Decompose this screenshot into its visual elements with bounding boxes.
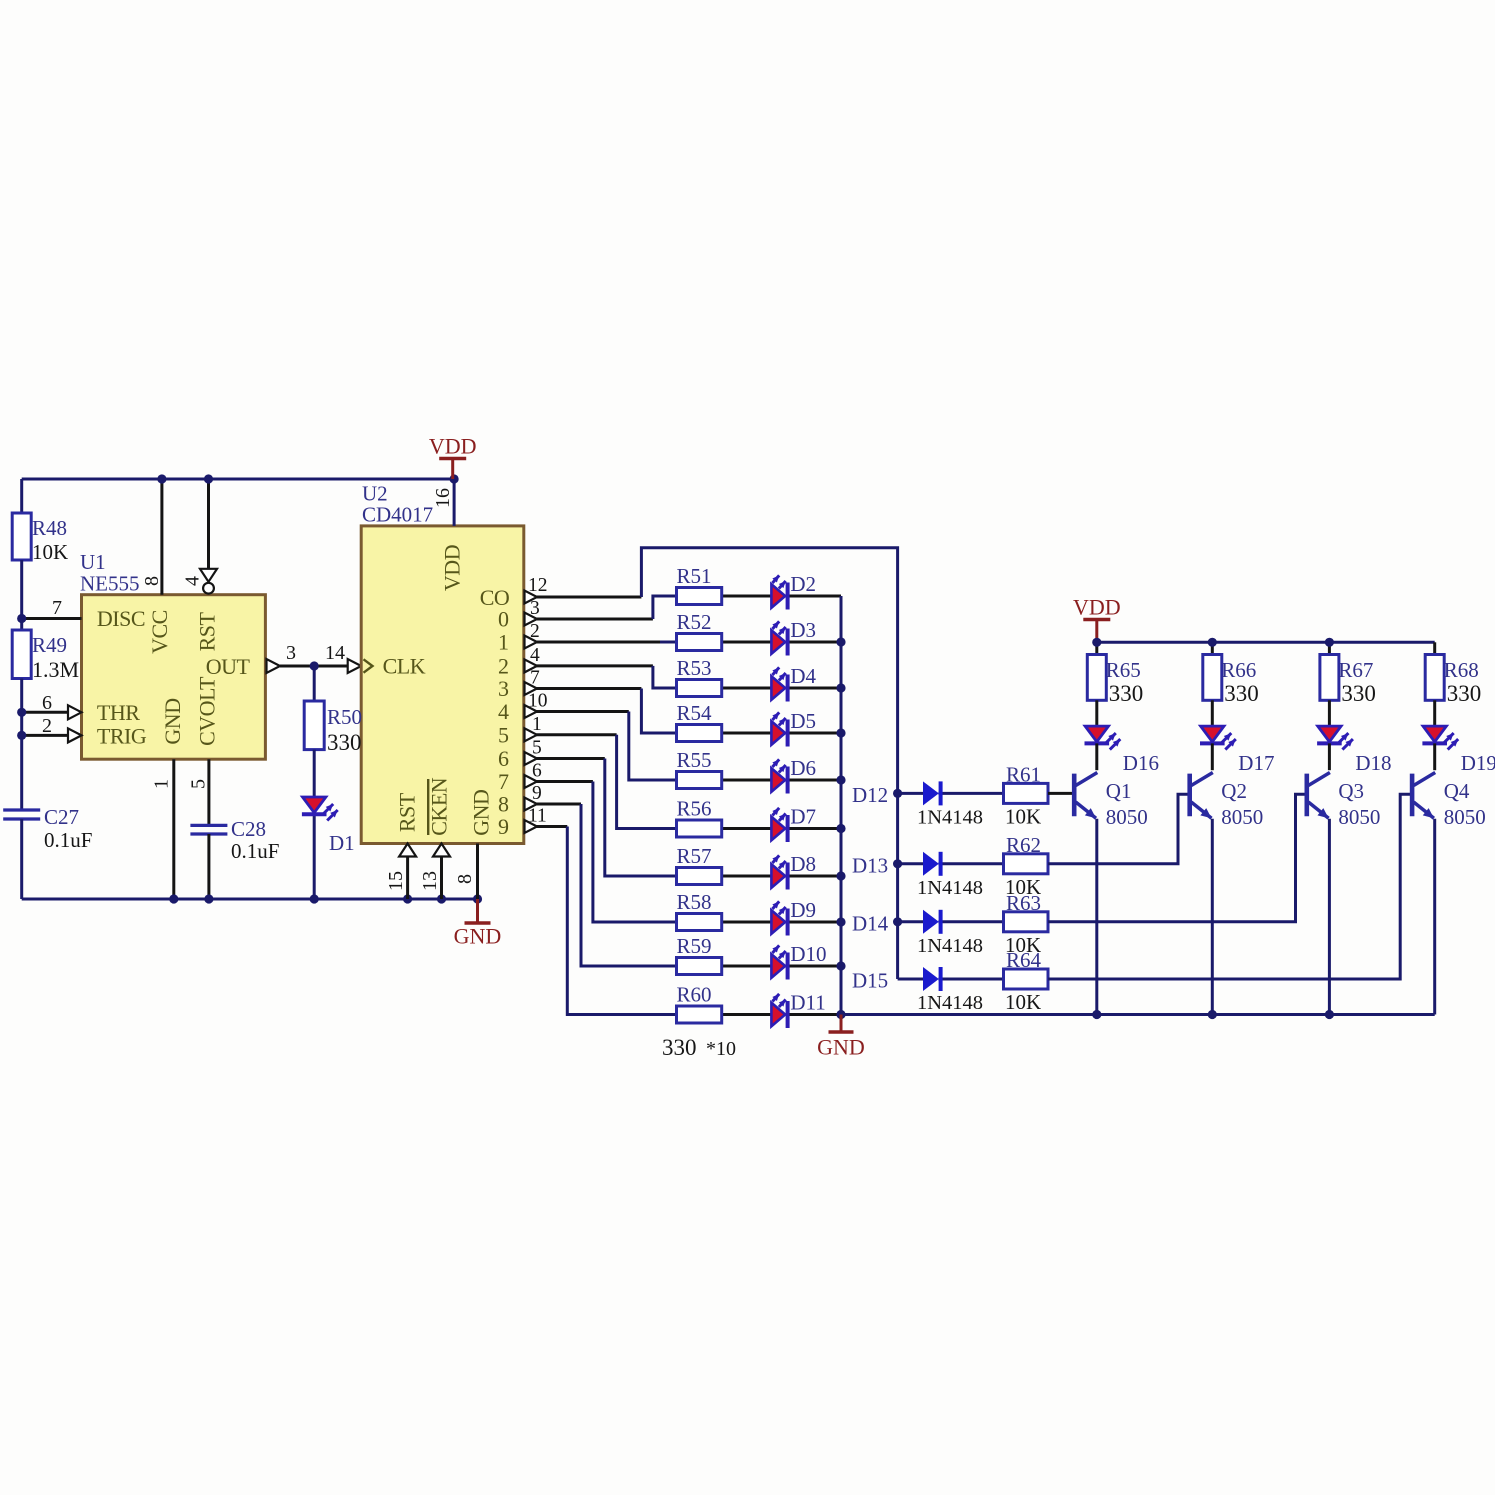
svg-text:D4: D4 — [790, 664, 816, 688]
svg-text:R52: R52 — [677, 610, 712, 634]
svg-text:R62: R62 — [1006, 833, 1041, 857]
svg-text:R64: R64 — [1006, 948, 1042, 972]
svg-text:13: 13 — [419, 871, 441, 891]
svg-text:R60: R60 — [677, 983, 712, 1007]
svg-text:10K: 10K — [32, 540, 68, 564]
svg-text:15: 15 — [385, 871, 407, 891]
svg-text:330: 330 — [1341, 681, 1376, 706]
svg-text:Q2: Q2 — [1221, 779, 1247, 803]
svg-text:8: 8 — [141, 576, 163, 586]
svg-text:7: 7 — [530, 668, 540, 689]
svg-text:VDD: VDD — [429, 434, 477, 459]
svg-text:THR: THR — [97, 700, 140, 725]
svg-text:R68: R68 — [1444, 658, 1479, 682]
svg-text:Q4: Q4 — [1444, 779, 1470, 803]
svg-text:VDD: VDD — [440, 545, 465, 591]
svg-text:GND: GND — [454, 924, 502, 949]
svg-text:1N4148: 1N4148 — [917, 806, 983, 828]
svg-text:8: 8 — [454, 874, 476, 884]
svg-text:NE555: NE555 — [80, 572, 140, 596]
svg-text:D11: D11 — [790, 991, 825, 1015]
svg-text:D9: D9 — [790, 898, 816, 922]
svg-text:RST: RST — [395, 792, 420, 832]
svg-text:TRIG: TRIG — [97, 724, 147, 749]
svg-text:CVOLT: CVOLT — [195, 676, 220, 746]
svg-text:330: 330 — [1109, 681, 1144, 706]
svg-text:DISC: DISC — [97, 606, 145, 631]
svg-text:CD4017: CD4017 — [362, 503, 433, 527]
svg-text:8050: 8050 — [1444, 805, 1486, 829]
svg-text:7: 7 — [52, 597, 62, 619]
svg-text:6: 6 — [532, 761, 542, 782]
svg-text:5: 5 — [532, 738, 542, 759]
svg-text:9: 9 — [532, 783, 542, 804]
svg-text:12: 12 — [528, 575, 548, 596]
svg-text:GND: GND — [160, 698, 185, 744]
svg-text:R50: R50 — [327, 705, 362, 729]
svg-text:R63: R63 — [1006, 891, 1041, 915]
svg-text:1: 1 — [532, 714, 542, 735]
svg-text:14: 14 — [325, 642, 345, 664]
svg-text:R67: R67 — [1338, 658, 1373, 682]
svg-text:C28: C28 — [231, 817, 266, 841]
svg-text:330: 330 — [662, 1035, 697, 1060]
svg-text:10: 10 — [528, 691, 548, 712]
svg-text:R55: R55 — [677, 748, 712, 772]
svg-text:4: 4 — [182, 576, 204, 586]
svg-text:D2: D2 — [790, 572, 816, 596]
svg-text:2: 2 — [498, 653, 509, 678]
svg-text:11: 11 — [528, 806, 547, 827]
svg-text:1: 1 — [151, 779, 173, 789]
svg-text:1: 1 — [498, 630, 509, 655]
svg-text:R49: R49 — [32, 633, 67, 657]
svg-text:4: 4 — [530, 645, 540, 666]
svg-text:GND: GND — [817, 1035, 865, 1060]
svg-text:D14: D14 — [852, 911, 889, 935]
svg-text:5: 5 — [188, 779, 210, 789]
svg-text:1N4148: 1N4148 — [917, 935, 983, 957]
svg-text:D12: D12 — [852, 783, 888, 807]
svg-text:330: 330 — [327, 730, 362, 755]
svg-text:R56: R56 — [677, 797, 712, 821]
svg-text:7: 7 — [498, 769, 509, 794]
svg-text:0.1uF: 0.1uF — [44, 828, 92, 852]
svg-text:6: 6 — [498, 746, 509, 771]
svg-text:0: 0 — [498, 607, 509, 632]
svg-text:10K: 10K — [1005, 990, 1041, 1014]
svg-text:0.1uF: 0.1uF — [231, 839, 279, 863]
svg-text:8050: 8050 — [1338, 805, 1380, 829]
svg-text:D8: D8 — [790, 852, 816, 876]
svg-text:Q1: Q1 — [1106, 779, 1132, 803]
svg-text:CKEN: CKEN — [427, 777, 452, 836]
svg-text:330: 330 — [1447, 681, 1482, 706]
svg-text:R66: R66 — [1221, 658, 1256, 682]
svg-text:GND: GND — [469, 790, 494, 836]
svg-text:5: 5 — [498, 722, 509, 747]
svg-text:VDD: VDD — [1073, 595, 1121, 620]
svg-text:R61: R61 — [1006, 762, 1041, 786]
svg-text:R58: R58 — [677, 890, 712, 914]
svg-text:R53: R53 — [677, 656, 712, 680]
svg-text:1N4148: 1N4148 — [917, 877, 983, 899]
svg-text:U1: U1 — [80, 550, 106, 574]
svg-text:D19: D19 — [1461, 751, 1495, 775]
svg-text:D10: D10 — [790, 942, 826, 966]
svg-text:D17: D17 — [1238, 751, 1274, 775]
svg-text:D1: D1 — [329, 831, 355, 855]
svg-text:R59: R59 — [677, 934, 712, 958]
svg-text:8050: 8050 — [1221, 805, 1263, 829]
svg-text:OUT: OUT — [206, 654, 251, 679]
svg-text:R51: R51 — [677, 564, 712, 588]
svg-text:R54: R54 — [677, 701, 713, 725]
svg-text:2: 2 — [42, 715, 52, 737]
svg-text:D18: D18 — [1355, 751, 1391, 775]
svg-text:D13: D13 — [852, 853, 888, 877]
svg-text:330: 330 — [1224, 681, 1259, 706]
svg-text:C27: C27 — [44, 805, 79, 829]
svg-text:R57: R57 — [677, 844, 712, 868]
svg-text:RST: RST — [195, 612, 220, 652]
svg-text:D3: D3 — [790, 618, 816, 642]
svg-text:6: 6 — [42, 692, 52, 714]
svg-text:10K: 10K — [1005, 804, 1041, 828]
svg-text:3: 3 — [286, 642, 296, 664]
svg-text:D16: D16 — [1123, 751, 1159, 775]
svg-text:1.3M: 1.3M — [32, 657, 79, 682]
svg-text:Q3: Q3 — [1338, 779, 1364, 803]
svg-text:D5: D5 — [790, 709, 816, 733]
svg-text:9: 9 — [498, 814, 509, 839]
svg-text:3: 3 — [530, 598, 540, 619]
svg-text:D7: D7 — [790, 805, 816, 829]
svg-text:2: 2 — [530, 621, 540, 642]
svg-text:CLK: CLK — [383, 654, 426, 679]
svg-text:8050: 8050 — [1106, 805, 1148, 829]
svg-text:D15: D15 — [852, 969, 888, 993]
svg-text:R48: R48 — [32, 516, 67, 540]
svg-text:1N4148: 1N4148 — [917, 992, 983, 1014]
svg-text:VCC: VCC — [147, 610, 172, 654]
svg-text:*10: *10 — [706, 1038, 736, 1060]
svg-text:16: 16 — [432, 488, 454, 508]
svg-text:D6: D6 — [790, 756, 816, 780]
svg-text:4: 4 — [498, 699, 509, 724]
svg-text:R65: R65 — [1106, 658, 1141, 682]
svg-text:3: 3 — [498, 676, 509, 701]
svg-text:8: 8 — [498, 792, 509, 817]
